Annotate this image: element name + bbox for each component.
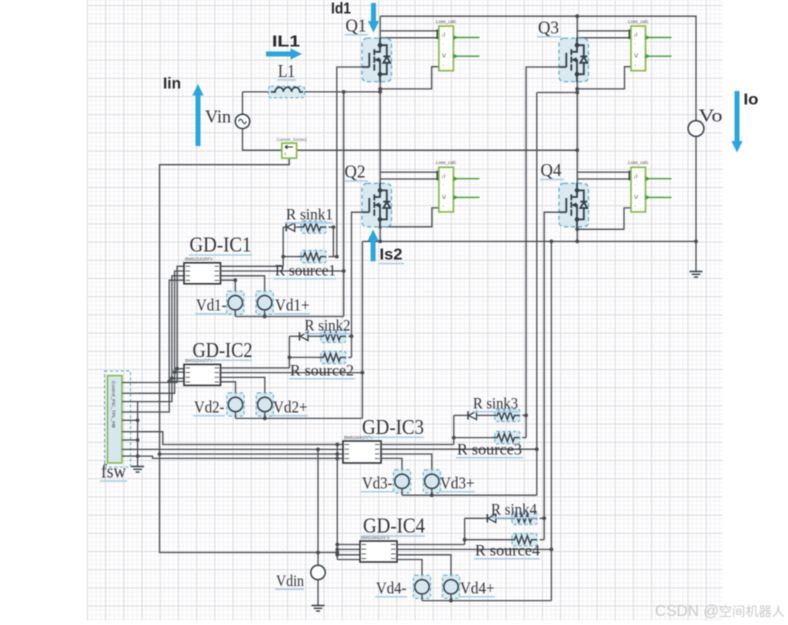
junction at (343.7,271) (342, 269, 346, 273)
svg-text:.: . (634, 40, 635, 46)
junction at (431.8,495.2) (430, 493, 434, 497)
wire network2 left column (288, 336, 290, 368)
svg-text:IL1: IL1 (272, 34, 300, 51)
ground Vdin ground (312, 606, 325, 612)
wire R source2 row left (289, 356, 318, 358)
gate-driver IC chip GD-IC1 (184, 263, 221, 284)
junction at (380.2,91.9) (378, 90, 382, 94)
junction at (264.6,316.5) (263, 315, 267, 319)
wire probe3 bottoms join (402, 494, 537, 496)
wire R source4 to gate node (540, 539, 545, 541)
wire Vd4- bottom (421, 594, 423, 601)
junction at (343.7,91.9) (342, 90, 346, 94)
svg-text:BM61S41RFV: BM61S41RFV (185, 257, 213, 262)
resistor R source4 (512, 534, 537, 546)
junction at (380.2,226.8) (378, 225, 382, 229)
wire Q1 source down to Q2 drain (379, 82, 381, 191)
wire Loss_calc4 current-return to Q4 drain (577, 178, 631, 180)
junction at (351.5,336.3) (350, 334, 354, 338)
wire GD-IC1 to Vd1- top (221, 280, 236, 295)
wire branch to GD-IC2 (169, 380, 184, 382)
junction at (177.1,368.7) (175, 367, 179, 371)
voltmeter probe Vd2+ (256, 393, 273, 416)
wire R source1 to gate node (329, 256, 337, 258)
wire Vin+ stem (242, 92, 244, 114)
wire R source3 to gate node (522, 437, 526, 439)
svg-text:Id1: Id1 (331, 1, 351, 18)
wire source-return riser3 (536, 93, 538, 496)
svg-text:Vd2+: Vd2+ (273, 398, 308, 417)
wire Loss_calc2 V- to Q2 source (380, 208, 439, 227)
svg-text:.: . (634, 181, 635, 187)
svg-text:R source3: R source3 (457, 442, 522, 459)
svg-text:Is2: Is2 (380, 247, 403, 264)
resistor R source1 (301, 250, 326, 262)
junction at (380.2,241.4) (378, 240, 382, 244)
junction at (169.2,381.4) (167, 380, 171, 384)
wire network3 left lead (454, 414, 465, 416)
wire gate riser to Q2 gate (352, 212, 370, 357)
svg-text:↓I: ↓I (633, 33, 637, 39)
wire control block pin stub (122, 401, 138, 403)
junction at (577.2,150.2) (575, 148, 579, 152)
wire Vdin supply riser (317, 449, 319, 565)
junction at (577.2,229.3) (575, 227, 579, 231)
wire Vdin to ground (317, 580, 319, 606)
junction at (337.3,444.5) (335, 443, 339, 447)
junction at (318,552.5) (316, 551, 320, 555)
wire branch to GD-IC2 (172, 377, 184, 379)
wire gate-driver supply bus (336, 445, 338, 560)
svg-text:Io: Io (744, 92, 759, 109)
junction at (577.2,241.4) (575, 240, 579, 244)
current sensor Current_Sense2 (282, 143, 297, 158)
transistor Q3 (MOSFET with body diode) (559, 38, 589, 82)
wire Q3 drain stack (576, 16, 578, 45)
svg-text:Q3: Q3 (538, 18, 559, 38)
svg-text:R sink4: R sink4 (491, 502, 537, 519)
wire control to GD-IC1 gate signal (138, 266, 184, 382)
wire bottom rail to output ground (695, 241, 697, 271)
wire bottom rail (362, 240, 696, 242)
wire GD-IC4 to Vd4+ top (397, 555, 451, 580)
wire probe4 bottoms join (422, 600, 551, 602)
diode D sink4 (486, 514, 488, 522)
wire GD-IC3 to Vd3+ top (381, 454, 432, 474)
junction at (264.8,418.4) (263, 417, 267, 421)
current arrow IL1 (266, 52, 291, 57)
inductor L1 (269, 86, 305, 98)
wire network4 left column (464, 518, 466, 544)
wire driver2 source-return riser (361, 241, 363, 418)
wire Loss_calc4 V- to Q4 source (577, 208, 631, 229)
wire Q2 source to bottom rail (379, 227, 381, 242)
svg-text:-: - (634, 63, 636, 69)
junction at (577.2,88.9) (575, 87, 579, 91)
wire GD-IC2 to Vd2+ top (221, 377, 265, 397)
junction at (336.8,256.6) (335, 255, 339, 259)
wire gate riser to Q4 gate (544, 212, 566, 540)
junction at (551.4,549.4) (550, 548, 554, 552)
wire driver3 source-return tie (537, 92, 577, 94)
gate-driver IC chip GD-IC4 (360, 541, 397, 562)
wire R source2 to gate node (348, 356, 351, 358)
svg-text:GD-IC3: GD-IC3 (362, 415, 424, 439)
svg-text:Vd1-: Vd1- (196, 296, 227, 315)
wire Q1 drain to Loss_calc current-in (380, 30, 439, 32)
wire network2 left lead (289, 335, 296, 337)
subsystem Loss_calc4 for Q4 (Loss_calc block) (628, 160, 672, 212)
svg-text:Loss_calc: Loss_calc (628, 19, 649, 24)
wire Q4 drain to Loss_calc4 current-in (577, 171, 631, 173)
junction at (362.4,372.6) (361, 371, 365, 375)
wire control to GD-IC1 gate signal (138, 280, 184, 412)
junction at (171.9,378.3) (170, 376, 174, 380)
svg-text:↓I: ↓I (633, 174, 637, 180)
voltage source Vo (688, 121, 704, 137)
ground output ground (690, 272, 703, 278)
wire Vd3+ bottom (431, 489, 433, 496)
wire Vd2+ bottom (264, 412, 266, 419)
svg-text:GD-IC2: GD-IC2 (193, 338, 253, 362)
voltmeter probe Vd1+ (256, 291, 273, 314)
resistor R source2 (321, 351, 346, 363)
subsystem Loss_calc1 for Q1 (Loss_calc block) (436, 19, 480, 71)
voltmeter probe Vd4+ (442, 575, 459, 598)
wire control block pin stub (122, 431, 138, 433)
wire R sink1 to right column (329, 226, 334, 228)
wire Loss_calc3 V- to Q3 source (577, 67, 631, 89)
wire diode4 to R sink4 (498, 517, 509, 519)
wire Loss_calc2 current-return to Q2 drain (380, 178, 439, 180)
svg-text:Vd4-: Vd4- (376, 579, 407, 598)
wire R sink3 to right column (522, 414, 526, 416)
wire control to GD-IC3 pin2 (138, 448, 343, 450)
svg-text:R sink1: R sink1 (286, 207, 333, 224)
junction at (337.3,554.8) (335, 553, 339, 557)
wire GD-IC1 source return (221, 270, 344, 272)
svg-text:R source1: R source1 (275, 263, 336, 280)
junction at (696,241.4) (694, 240, 698, 244)
wire Q1 drain stack (379, 16, 381, 45)
wire Loss_calc3 current-return to Q3 drain (577, 37, 631, 39)
voltage source Vin (235, 114, 249, 128)
junction at (337.3,458.4) (335, 457, 339, 461)
wire diode3 to R sink3 (479, 414, 492, 416)
wire control block pin stub (122, 419, 138, 421)
junction at (337.3,552.5) (335, 551, 339, 555)
svg-text:Control_PIC_TPL_HB: Control_PIC_TPL_HB (110, 381, 116, 428)
wire network1 right column (332, 227, 334, 257)
junction at (337.3,549.4) (335, 548, 339, 552)
svg-text:Q4: Q4 (541, 160, 562, 180)
wire current sense signal down-left (160, 158, 338, 552)
svg-text:Loss_calc: Loss_calc (436, 160, 457, 165)
svg-text:V: V (634, 195, 638, 201)
port bracket Loss_calc4 I (629, 172, 633, 180)
gate-driver IC chip GD-IC2 (184, 364, 221, 385)
wire bus to GD-IC4 pin1 (337, 544, 360, 546)
wire network3 left column (453, 415, 455, 444)
svg-text:.: . (442, 40, 443, 46)
port bracket Loss_calc2 I (437, 172, 441, 180)
resistor R source3 (495, 431, 520, 443)
junction at (159.5,454) (158, 452, 162, 456)
wire R sink2 to right column (348, 335, 351, 337)
svg-text:Vo: Vo (699, 106, 723, 126)
wire R source1 row left (283, 256, 298, 258)
current arrow Is2 (371, 241, 376, 261)
svg-text:fsw: fsw (101, 462, 126, 483)
svg-text:Vd3-: Vd3- (362, 474, 393, 493)
wire GD-IC2 out to R network2 (221, 367, 290, 369)
wire branch to GD-IC2 (177, 368, 184, 370)
voltage source Vdin (311, 565, 325, 579)
wire R sink4 to right column (540, 517, 545, 519)
wire control to GD-IC3 pin1 (138, 432, 343, 445)
wire probe2 bottoms join (236, 417, 363, 419)
wire R source3 row left (454, 437, 493, 439)
svg-text:Vin: Vin (205, 107, 231, 127)
svg-text:V: V (634, 54, 638, 60)
wire diode to R sink1 (297, 226, 298, 228)
svg-text:R sink2: R sink2 (305, 318, 351, 335)
wire Q3 source down to Q4 drain (576, 82, 578, 191)
junction at (526.1,415.4) (524, 414, 528, 418)
junction at (380.2,88.9) (378, 87, 382, 91)
wire branch to GD-IC2 (175, 371, 184, 373)
junction at (235.3,280.2) (233, 278, 237, 282)
wire L1 to Q1 source node rail (303, 91, 380, 93)
svg-text:GD-IC4: GD-IC4 (363, 514, 425, 538)
voltmeter probe Vd3+ (423, 470, 440, 493)
svg-text:R source4: R source4 (475, 543, 540, 560)
svg-text:GD-IC1: GD-IC1 (190, 233, 252, 257)
svg-text:↓I: ↓I (441, 174, 445, 180)
transistor Q2 (MOSFET with body diode) (362, 183, 392, 228)
wire output node down to Vo (695, 120, 697, 122)
wire bus to GD-IC4 pin2 (337, 548, 360, 550)
junction at (577.2,16.2) (575, 14, 579, 18)
wire top rail from Q1 drain to output corner (380, 16, 696, 120)
ground control ground (131, 467, 144, 473)
wire GD-IC3 to Vd3- top (381, 458, 402, 474)
voltmeter probe Vd3- (393, 470, 410, 493)
wire GD-IC4 to Vd4- top (397, 560, 422, 580)
svg-text:CSDN @空间机器人: CSDN @空间机器人 (655, 603, 785, 620)
svg-text:Vd1+: Vd1+ (275, 296, 310, 315)
wire source-return riser to Q1 source rail (343, 92, 345, 317)
transistor Q1 (MOSFET with body diode) (362, 38, 392, 82)
wire probe bottoms join to source return (235, 316, 343, 318)
wire Loss_calc1 V- to Q1 source (380, 67, 439, 89)
wire gate riser to Q1 gate (337, 67, 370, 257)
junction at (283.2,256.6) (281, 255, 285, 259)
wire bus to GD-IC4 pin3 (337, 554, 360, 556)
subsystem Loss_calc3 for Q3 (Loss_calc block) (628, 19, 672, 71)
svg-text:Q2: Q2 (345, 162, 366, 182)
svg-text:Loss_calc: Loss_calc (628, 160, 649, 165)
diode D sink2 (299, 332, 301, 340)
wire control to GD-IC1 gate signal (138, 276, 184, 402)
resistor R sink2 (321, 330, 346, 342)
current arrow Io (735, 91, 740, 141)
wire bus to GD-IC4 pin4 (337, 559, 360, 561)
wire control block pin stub (122, 455, 138, 457)
wire Vd1+ bottom (264, 310, 266, 317)
current arrow Iin (196, 96, 201, 147)
svg-text:Iin: Iin (163, 76, 181, 93)
wire control block pin stub (122, 382, 138, 384)
port bracket Loss_calc1 I (437, 30, 441, 38)
svg-text:-: - (634, 204, 636, 210)
svg-text:L1: L1 (278, 61, 295, 81)
wire control ground rail (137, 402, 139, 467)
wire Vd3- bottom (401, 489, 403, 496)
wire current-sense signal to GD-IC3 pin3 (160, 453, 344, 455)
wire Vin+ to L1 rail (243, 91, 272, 93)
svg-text:I: I (285, 152, 286, 158)
wire GD-IC2 source return (221, 372, 363, 374)
svg-text:R source2: R source2 (290, 363, 354, 380)
resistor R sink1 (301, 221, 326, 233)
junction at (551.4,241.4) (550, 240, 554, 244)
svg-text:Loss_calc: Loss_calc (436, 19, 457, 24)
wire Vin- to current sense (243, 129, 282, 151)
wire Loss_calc current-return to Q1 drain (380, 37, 439, 39)
wire R source4 row left (465, 539, 510, 541)
diode D sink1 (285, 223, 287, 231)
svg-text:Vd4+: Vd4+ (460, 579, 495, 598)
wire Vd2- bottom (235, 412, 237, 419)
junction at (544.2,518.3) (542, 516, 546, 520)
wire control block pin stub (122, 411, 138, 413)
wire GD-IC4 out to R network4 (397, 544, 465, 546)
junction at (174.6,372.1) (173, 370, 177, 374)
svg-text:↓I: ↓I (441, 33, 445, 39)
junction at (451,600.6) (449, 599, 453, 603)
svg-text:R sink3: R sink3 (473, 396, 518, 413)
wire GD-IC1 to Vd1+ top (221, 276, 265, 296)
junction at (318,449.4) (316, 448, 320, 452)
wire control block pin stub (122, 392, 138, 394)
svg-text:Current_Sense2: Current_Sense2 (277, 137, 308, 142)
svg-text:.: . (442, 181, 443, 187)
transistor Q4 (MOSFET with body diode) (559, 183, 589, 228)
junction at (289.4,357.4) (288, 356, 292, 360)
svg-text:V: V (442, 195, 446, 201)
wire GD-IC2 to Vd2- top (221, 382, 236, 398)
voltmeter probe Vd1- (227, 291, 244, 314)
wire GD-IC3 out to R network3 (381, 444, 454, 446)
svg-text:Vdin: Vdin (276, 573, 304, 590)
svg-text:-: - (442, 63, 444, 69)
wire control to GD-IC3 pin4 (138, 456, 343, 458)
diode D sink3 (467, 411, 469, 419)
resistor R sink4 (512, 512, 537, 524)
wire source-return riser4 (550, 241, 552, 600)
svg-text:Q1: Q1 (346, 16, 367, 36)
wire Vo to bottom rail (695, 136, 697, 241)
wire GD-IC1 out to R network1 (221, 265, 284, 267)
current arrow Id1 (371, 3, 376, 21)
voltmeter probe Vd2- (227, 393, 244, 416)
wire diode2 to R sink2 (311, 335, 319, 337)
junction at (536.8,449.2) (535, 447, 539, 451)
wire GD-IC4 source return (397, 548, 551, 550)
wire network4 left lead (465, 517, 485, 519)
wire control block pin stub (122, 448, 138, 450)
port bracket Loss_calc3 I (629, 30, 633, 38)
wire Q3 drain to Loss_calc3 current-in (577, 30, 631, 32)
wire Vd1- bottom (234, 310, 236, 317)
junction at (464.6,539.7) (463, 538, 467, 542)
svg-text:V: V (442, 54, 446, 60)
gate-driver IC chip GD-IC3 (343, 441, 381, 463)
junction at (337.3,544.5) (335, 543, 339, 547)
junction at (137.6,420.3) (136, 418, 140, 422)
junction at (137.6,440) (136, 438, 140, 442)
voltmeter probe Vd4- (413, 575, 430, 598)
wire control to GD-IC1 gate signal (138, 271, 184, 393)
junction at (577.2,92.5) (575, 91, 579, 95)
wire Vd4+ bottom (450, 594, 452, 601)
junction at (333.4,227.1) (332, 225, 336, 229)
resistor R sink3 (495, 409, 520, 421)
svg-text:Vd3+: Vd3+ (440, 474, 475, 493)
junction at (337.3,454) (335, 452, 339, 456)
wire current sense to Q3/Q4 midpoint (297, 149, 578, 151)
svg-text:Vd2-: Vd2- (194, 398, 225, 417)
wire Q2 drain to Loss_calc2 current-in (380, 171, 439, 173)
svg-text:-: - (442, 204, 444, 210)
wire network1 left column (282, 227, 284, 266)
wire GD-IC3 source return (381, 448, 537, 450)
controller block Control_PIC_TPL_HB (105, 371, 131, 467)
wire Q4 source to bottom rail (576, 227, 578, 242)
junction at (453.8,437.6) (452, 436, 456, 440)
junction at (137.6,456.1) (136, 454, 140, 458)
wire control block pin stub (122, 439, 138, 441)
wire gate riser to Q3 gate (526, 67, 566, 438)
subsystem Loss_calc2 for Q2 (Loss_calc block) (436, 160, 480, 212)
